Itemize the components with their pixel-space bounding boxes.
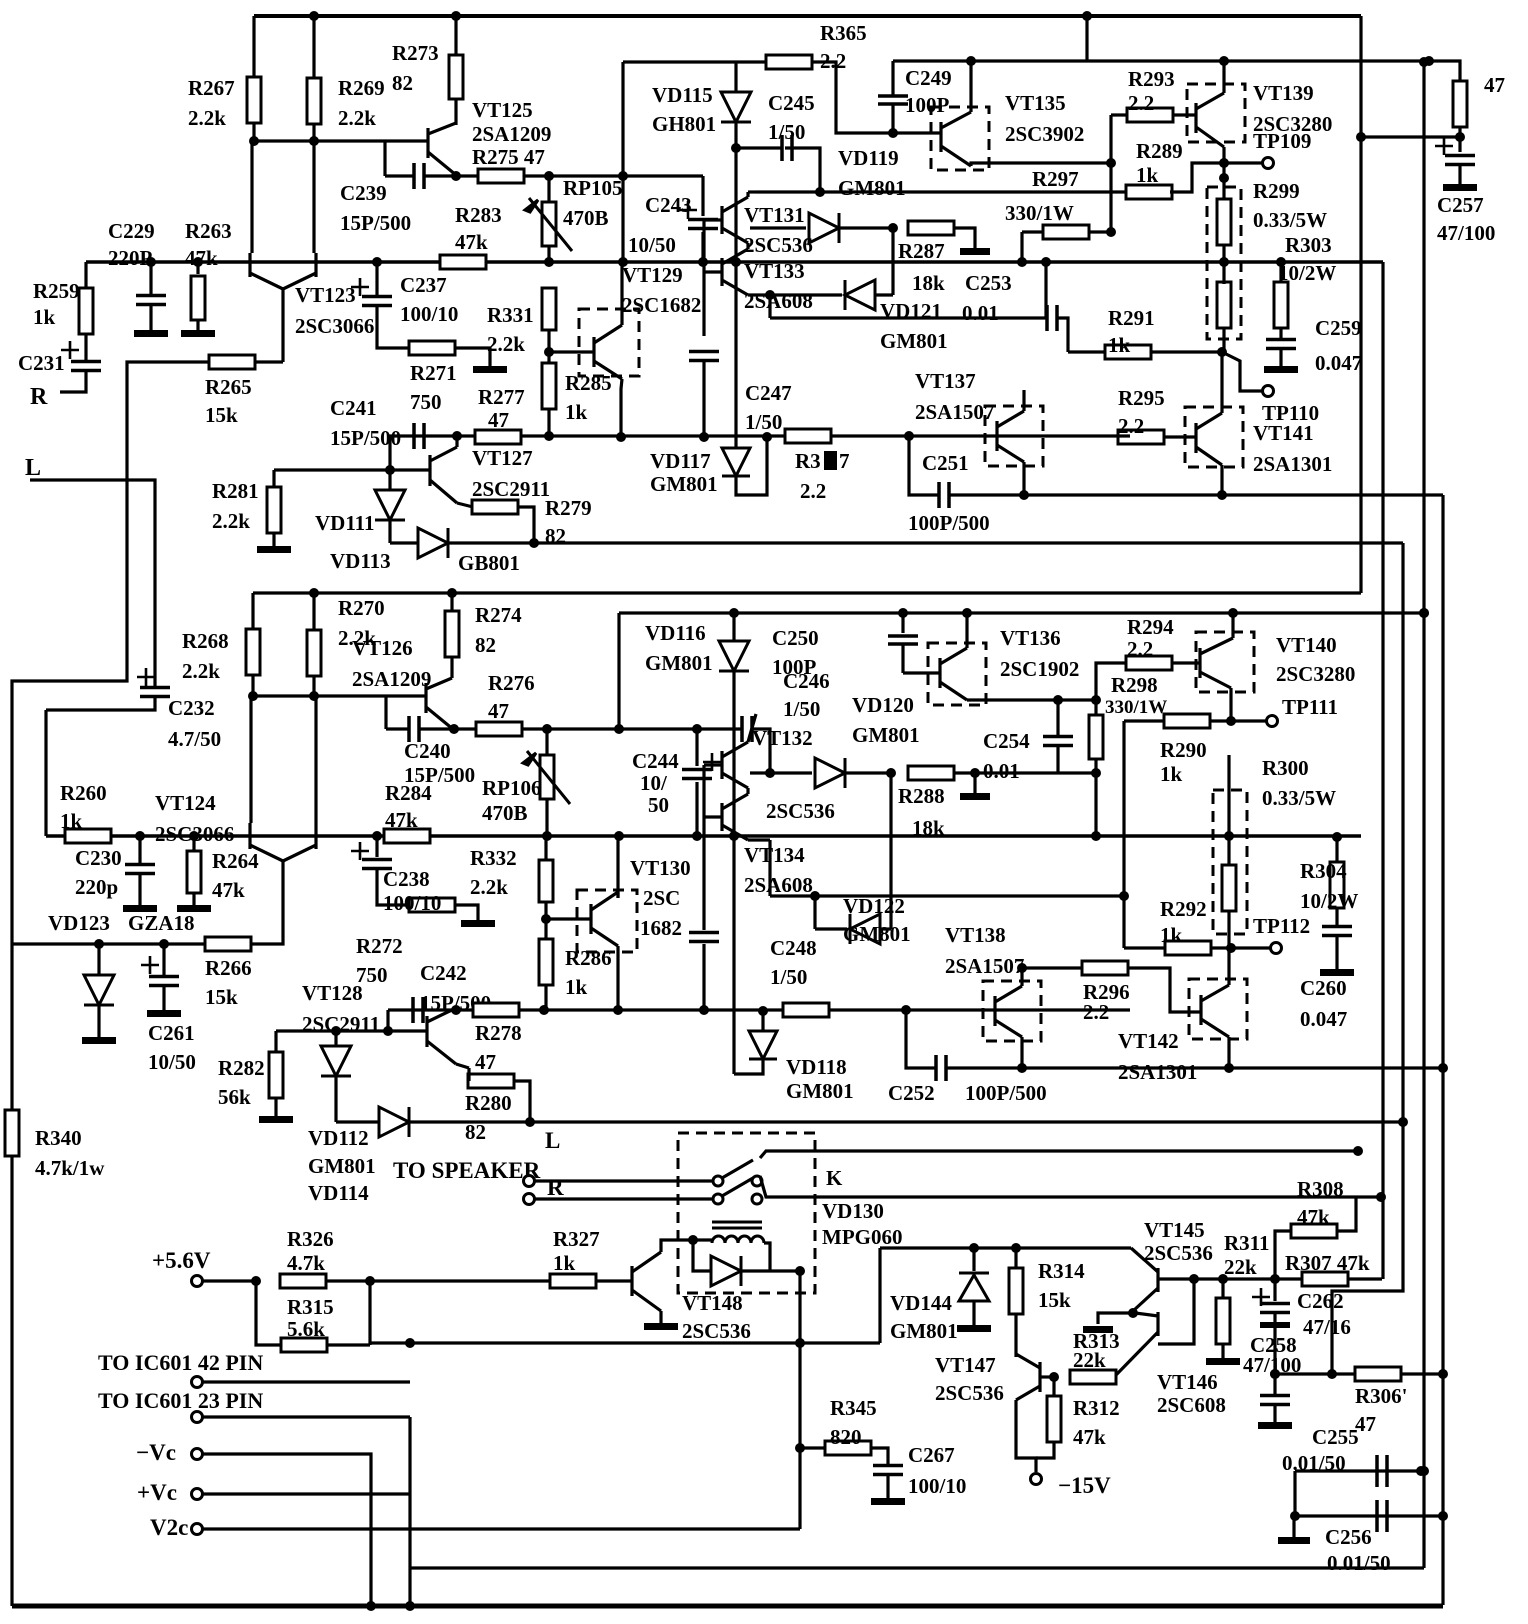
junction [544, 171, 554, 181]
svg-text:VT140: VT140 [1276, 633, 1337, 657]
svg-text:1k: 1k [1108, 333, 1131, 357]
plus sign [703, 753, 721, 771]
junction [542, 831, 552, 841]
diode VD117 [722, 448, 750, 476]
wire [450, 593, 453, 612]
resistor R282 [269, 1052, 283, 1098]
wire [750, 771, 812, 774]
plus sign [679, 201, 697, 219]
wire [764, 1243, 770, 1271]
svg-text:VT123: VT123 [295, 283, 356, 307]
svg-text:R340: R340 [35, 1126, 82, 1150]
wire VT139 collector [1222, 61, 1225, 93]
capacitor C251 [939, 482, 949, 508]
svg-text:1k: 1k [1136, 163, 1159, 187]
resistor R278 [473, 1003, 519, 1017]
svg-text:R277: R277 [478, 385, 525, 409]
ground [1083, 1326, 1113, 1333]
svg-text:TP112: TP112 [1253, 914, 1310, 938]
junction [94, 939, 104, 949]
svg-text:750: 750 [410, 390, 442, 414]
resistor R286 [539, 939, 553, 985]
diode VD113/GB801 [418, 528, 448, 558]
wire [761, 1011, 764, 1032]
capacitor C232 [140, 688, 170, 697]
wire [1022, 462, 1025, 495]
wire [1056, 746, 1059, 773]
junction [451, 1005, 461, 1015]
wire [1096, 663, 1127, 700]
svg-text:GM801: GM801 [890, 1319, 958, 1343]
svg-text:2SC536: 2SC536 [682, 1319, 751, 1343]
wire [1293, 1471, 1296, 1516]
transistor VT129 [594, 325, 622, 379]
ground [461, 920, 495, 927]
wire [1127, 968, 1201, 1012]
wire [138, 874, 141, 905]
svg-text:2SC1902: 2SC1902 [1000, 657, 1079, 681]
svg-text:2SC: 2SC [643, 886, 680, 910]
svg-text:47: 47 [1484, 73, 1505, 97]
junction [1091, 695, 1101, 705]
wire y1010 [388, 1008, 1130, 1011]
wire top rail [254, 14, 1361, 18]
terminal TP112 [1271, 943, 1282, 954]
plus sign [1435, 137, 1453, 155]
svg-text:VT137: VT137 [915, 369, 976, 393]
junction [385, 465, 395, 475]
wire [547, 330, 550, 352]
svg-text:330/1W: 330/1W [1005, 201, 1074, 225]
svg-text:R300: R300 [1262, 756, 1309, 780]
svg-text:V2c: V2c [150, 1515, 188, 1540]
plus sign [351, 842, 369, 860]
resistor R345 [825, 1441, 871, 1455]
svg-text:R291: R291 [1108, 306, 1155, 330]
svg-text:R285: R285 [565, 371, 612, 395]
svg-text:0.047: 0.047 [1315, 351, 1362, 375]
svg-text:47/16: 47/16 [1303, 1315, 1351, 1339]
wire VT148 collector [661, 1240, 693, 1252]
diode VD114 [379, 1107, 409, 1137]
junction [765, 768, 775, 778]
svg-text:R287: R287 [898, 239, 945, 263]
svg-text:0.33/5W: 0.33/5W [1253, 208, 1327, 232]
wire VT140 collector [1231, 613, 1234, 638]
resistor R288 [908, 766, 954, 780]
wire [1279, 349, 1282, 366]
resistor R298 [1089, 715, 1103, 759]
svg-text:82: 82 [475, 633, 496, 657]
junction [1356, 132, 1366, 142]
wire VT135 emitter [971, 163, 1111, 166]
wire [1361, 135, 1460, 138]
svg-text:VT133: VT133 [744, 259, 805, 283]
svg-text:VT132: VT132 [752, 726, 813, 750]
resistor R274 [445, 611, 459, 657]
wire [1020, 1037, 1023, 1068]
junction [539, 1005, 549, 1015]
svg-text:220p: 220p [75, 875, 118, 899]
junction [886, 768, 896, 778]
wire [388, 436, 391, 470]
junction [904, 431, 914, 441]
wire -Vc [203, 1454, 371, 1606]
svg-text:C255: C255 [1312, 1425, 1359, 1449]
relay contact [713, 1176, 723, 1186]
wire [839, 226, 893, 229]
svg-text:C229: C229 [108, 219, 155, 243]
resistor R276 [476, 722, 522, 736]
resistor R275 [478, 169, 524, 183]
wire [901, 613, 904, 633]
svg-text:470B: 470B [482, 801, 528, 825]
wire [1227, 1037, 1230, 1068]
ground [181, 330, 215, 337]
svg-text:R284: R284 [385, 781, 432, 805]
junction [765, 290, 775, 300]
svg-text:2SA1209: 2SA1209 [472, 122, 551, 146]
wire [1058, 318, 1068, 352]
svg-text:C248: C248 [770, 936, 817, 960]
wire VT139 emitter [1222, 147, 1225, 163]
wire bottom rail [12, 1604, 1443, 1609]
wire [616, 892, 619, 898]
junction [758, 1006, 768, 1016]
svg-text:TO SPEAKER: TO SPEAKER [393, 1158, 541, 1183]
svg-text:RP105: RP105 [563, 176, 623, 200]
svg-text:R273: R273 [392, 41, 439, 65]
resistor R273 [449, 55, 463, 99]
junction [1276, 257, 1286, 267]
diode VD123 [84, 975, 114, 1005]
diode VD121 [845, 280, 875, 310]
svg-text:820: 820 [830, 1425, 862, 1449]
svg-text:2SC536: 2SC536 [744, 233, 813, 257]
junction [1228, 608, 1238, 618]
wire [455, 348, 490, 366]
resistor R287 [908, 221, 954, 235]
svg-text:R311: R311 [1224, 1231, 1270, 1255]
svg-text:R286: R286 [565, 946, 612, 970]
junction [1017, 257, 1027, 267]
junction [1017, 963, 1027, 973]
svg-text:R3: R3 [795, 449, 821, 473]
svg-text:2SC3066: 2SC3066 [295, 314, 374, 338]
transistor VT125 [428, 123, 456, 175]
resistor R303b [1274, 282, 1288, 328]
dashed box VT130 [577, 890, 637, 952]
relay contact [752, 1194, 762, 1204]
svg-text:R327: R327 [553, 1227, 600, 1251]
wire [734, 262, 737, 449]
junction [544, 431, 554, 441]
plus sign [137, 668, 155, 686]
wire [620, 262, 623, 322]
svg-text:18k: 18k [912, 271, 945, 295]
capacitor C243 [688, 220, 718, 229]
junction [815, 187, 825, 197]
svg-text:R259: R259 [33, 279, 80, 303]
wire [1056, 700, 1059, 735]
plus sign [141, 956, 159, 974]
wire x1383 [1381, 262, 1384, 1279]
wire [1273, 1328, 1276, 1374]
wire [84, 333, 87, 361]
wire [871, 1448, 888, 1464]
wire [149, 305, 152, 330]
wire VT136 emitter [967, 698, 1096, 701]
svg-text:47k: 47k [212, 878, 245, 902]
wire [44, 710, 47, 836]
svg-text:1k: 1k [33, 305, 56, 329]
wire [370, 1341, 880, 1344]
junction [248, 691, 258, 701]
junction [135, 831, 145, 841]
wire VT136 collector [965, 613, 968, 648]
wire [1220, 352, 1223, 407]
svg-text:R304: R304 [1300, 859, 1347, 883]
wire [1111, 113, 1128, 116]
svg-text:1k: 1k [553, 1251, 576, 1275]
resistor R365 [766, 55, 812, 69]
svg-text:TP109: TP109 [1253, 129, 1311, 153]
wire [375, 262, 378, 296]
svg-text:1682: 1682 [640, 916, 682, 940]
wire [702, 817, 705, 930]
svg-text:5.6k: 5.6k [287, 1317, 325, 1341]
svg-text:100P/500: 100P/500 [965, 1081, 1047, 1105]
svg-text:R282: R282 [218, 1056, 265, 1080]
svg-text:GB801: GB801 [458, 551, 520, 575]
dashed box VT136 [928, 643, 986, 705]
wire [1052, 1377, 1055, 1397]
wire R306 line [1275, 1372, 1443, 1375]
wire [272, 532, 275, 546]
svg-text:R280: R280 [465, 1091, 512, 1115]
capacitor C256 [1377, 1500, 1387, 1532]
wire [203, 1279, 256, 1282]
wire R297 line [756, 190, 1128, 193]
svg-text:R306': R306' [1355, 1384, 1408, 1408]
svg-text:R274: R274 [475, 603, 522, 627]
wire [517, 507, 534, 543]
svg-text:R297: R297 [1032, 167, 1079, 191]
junction [1219, 158, 1229, 168]
resistor R314 [1009, 1268, 1023, 1314]
terminal V2c [192, 1524, 203, 1535]
svg-text:2SA608: 2SA608 [744, 873, 813, 897]
junction [447, 588, 457, 598]
junction [795, 1443, 805, 1453]
transistor VT142 [1201, 985, 1229, 1037]
wire [1124, 719, 1164, 722]
svg-text:2SC1682: 2SC1682 [622, 293, 701, 317]
junction [1270, 1369, 1280, 1379]
wire [1273, 1312, 1276, 1322]
svg-text:C250: C250 [772, 626, 819, 650]
svg-text:330/1W: 330/1W [1105, 697, 1167, 718]
svg-text:2.2k: 2.2k [188, 106, 226, 130]
svg-text:R326: R326 [287, 1227, 334, 1251]
resistor R290 [1164, 714, 1210, 728]
svg-text:7: 7 [839, 449, 850, 473]
wire [549, 350, 594, 353]
junction [1091, 831, 1101, 841]
junction [1398, 1117, 1408, 1127]
svg-text:VT139: VT139 [1253, 81, 1314, 105]
wire [1458, 165, 1461, 184]
wire [973, 773, 976, 793]
svg-text:2SC536: 2SC536 [1144, 1241, 1213, 1265]
junction [1376, 1192, 1386, 1202]
svg-text:C256: C256 [1325, 1525, 1372, 1549]
transistor VT132 [722, 742, 748, 788]
wire [704, 218, 722, 221]
dashed box VT135 [931, 107, 989, 170]
svg-text:2.2: 2.2 [1127, 637, 1153, 661]
wire [1279, 262, 1282, 281]
relay contact [713, 1194, 723, 1204]
svg-text:R281: R281 [212, 479, 259, 503]
wire [693, 1240, 710, 1271]
svg-text:GM801: GM801 [645, 651, 713, 675]
resistor R312 [1047, 1396, 1061, 1442]
dashed box VT139 [1187, 84, 1245, 142]
svg-text:2SA1209: 2SA1209 [352, 667, 431, 691]
wire [1170, 163, 1262, 192]
junction [193, 257, 203, 267]
wire [514, 1081, 530, 1122]
capacitor C252 [936, 1055, 946, 1081]
transistor VT128 [427, 1008, 456, 1064]
wire [620, 322, 623, 325]
svg-text:2SC2911: 2SC2911 [302, 1012, 380, 1036]
wire [1036, 1441, 1054, 1458]
wire [701, 232, 704, 262]
svg-text:1k: 1k [1160, 923, 1183, 947]
svg-text:1/50: 1/50 [770, 965, 807, 989]
svg-text:100/10: 100/10 [383, 891, 441, 915]
junction [309, 11, 319, 21]
svg-text:2SC608: 2SC608 [1157, 1393, 1226, 1417]
wire [1458, 126, 1461, 152]
terminal TP109 [1263, 158, 1274, 169]
wire input bus R [86, 260, 1383, 264]
resistor R295 [1118, 430, 1164, 444]
svg-text:C232: C232 [168, 696, 215, 720]
transistor VT141 [1196, 413, 1222, 465]
svg-text:C240: C240 [404, 739, 451, 763]
svg-text:R283: R283 [455, 203, 502, 227]
wire [909, 436, 938, 495]
junction [1049, 1372, 1059, 1382]
svg-text:4.7/50: 4.7/50 [168, 727, 221, 751]
plus sign [61, 341, 79, 359]
wire [312, 593, 315, 631]
wire [535, 1179, 712, 1182]
junction [1082, 11, 1092, 21]
wire VT130 emitter [616, 946, 619, 1010]
wire y613 [619, 611, 1427, 614]
transistor VT139 [1196, 93, 1224, 147]
resistor R263 [191, 276, 205, 320]
svg-text:+5.6V: +5.6V [152, 1248, 211, 1273]
svg-text:10/: 10/ [640, 771, 668, 795]
svg-text:47k: 47k [385, 808, 418, 832]
plus sign [351, 278, 369, 296]
wire [1220, 465, 1223, 495]
svg-text:100/10: 100/10 [400, 302, 458, 326]
ground [147, 1010, 181, 1017]
svg-text:VD114: VD114 [308, 1181, 369, 1205]
ground [123, 905, 157, 912]
wire x1443 [1441, 495, 1444, 1605]
svg-text:C244: C244 [632, 749, 679, 773]
svg-text:VT125: VT125 [472, 98, 533, 122]
junction [372, 257, 382, 267]
diode VD118 [749, 1031, 777, 1059]
svg-text:GM801: GM801 [852, 723, 920, 747]
junction [810, 891, 820, 901]
wire [732, 836, 735, 1074]
junction [449, 724, 459, 734]
svg-text:C239: C239 [340, 181, 387, 205]
dashed box VT137 [985, 406, 1043, 466]
svg-text:−15V: −15V [1058, 1473, 1111, 1498]
wire [891, 228, 894, 295]
junction [614, 831, 624, 841]
junction [1290, 1511, 1300, 1521]
wire [274, 1031, 277, 1053]
wire [1210, 946, 1231, 949]
resistor R303 [1217, 282, 1231, 328]
svg-text:+Vc: +Vc [137, 1480, 177, 1505]
svg-text:VT146: VT146 [1157, 1370, 1218, 1394]
wire [12, 362, 209, 944]
junction [146, 257, 156, 267]
svg-text:2SA1301: 2SA1301 [1253, 452, 1332, 476]
wire [547, 408, 550, 436]
wire [768, 840, 771, 896]
ground [957, 1325, 991, 1332]
junction [970, 768, 980, 778]
svg-text:1/50: 1/50 [783, 697, 820, 721]
resistor R289 [1126, 185, 1172, 199]
resistor R285 [542, 363, 556, 409]
svg-text:1/50: 1/50 [745, 410, 782, 434]
ground [259, 1116, 293, 1123]
wire L return line [409, 1120, 1403, 1123]
wire y896 [770, 894, 1124, 897]
wire [377, 869, 410, 905]
junction [249, 136, 259, 146]
svg-text:2SC3902: 2SC3902 [1005, 122, 1084, 146]
wire L top rail [253, 591, 1361, 594]
svg-text:2SA1507: 2SA1507 [915, 400, 994, 424]
junction [1017, 1063, 1027, 1073]
wire [326, 1279, 370, 1282]
wire +Vc rail [410, 1566, 1424, 1569]
junction [898, 608, 908, 618]
junction [159, 939, 169, 949]
junction [1106, 227, 1116, 237]
diode VD144 (zener) [959, 1273, 989, 1301]
svg-text:C238: C238 [383, 867, 430, 891]
svg-text:VD112: VD112 [308, 1126, 369, 1150]
junction [616, 432, 626, 442]
svg-text:MPG060: MPG060 [822, 1225, 902, 1249]
